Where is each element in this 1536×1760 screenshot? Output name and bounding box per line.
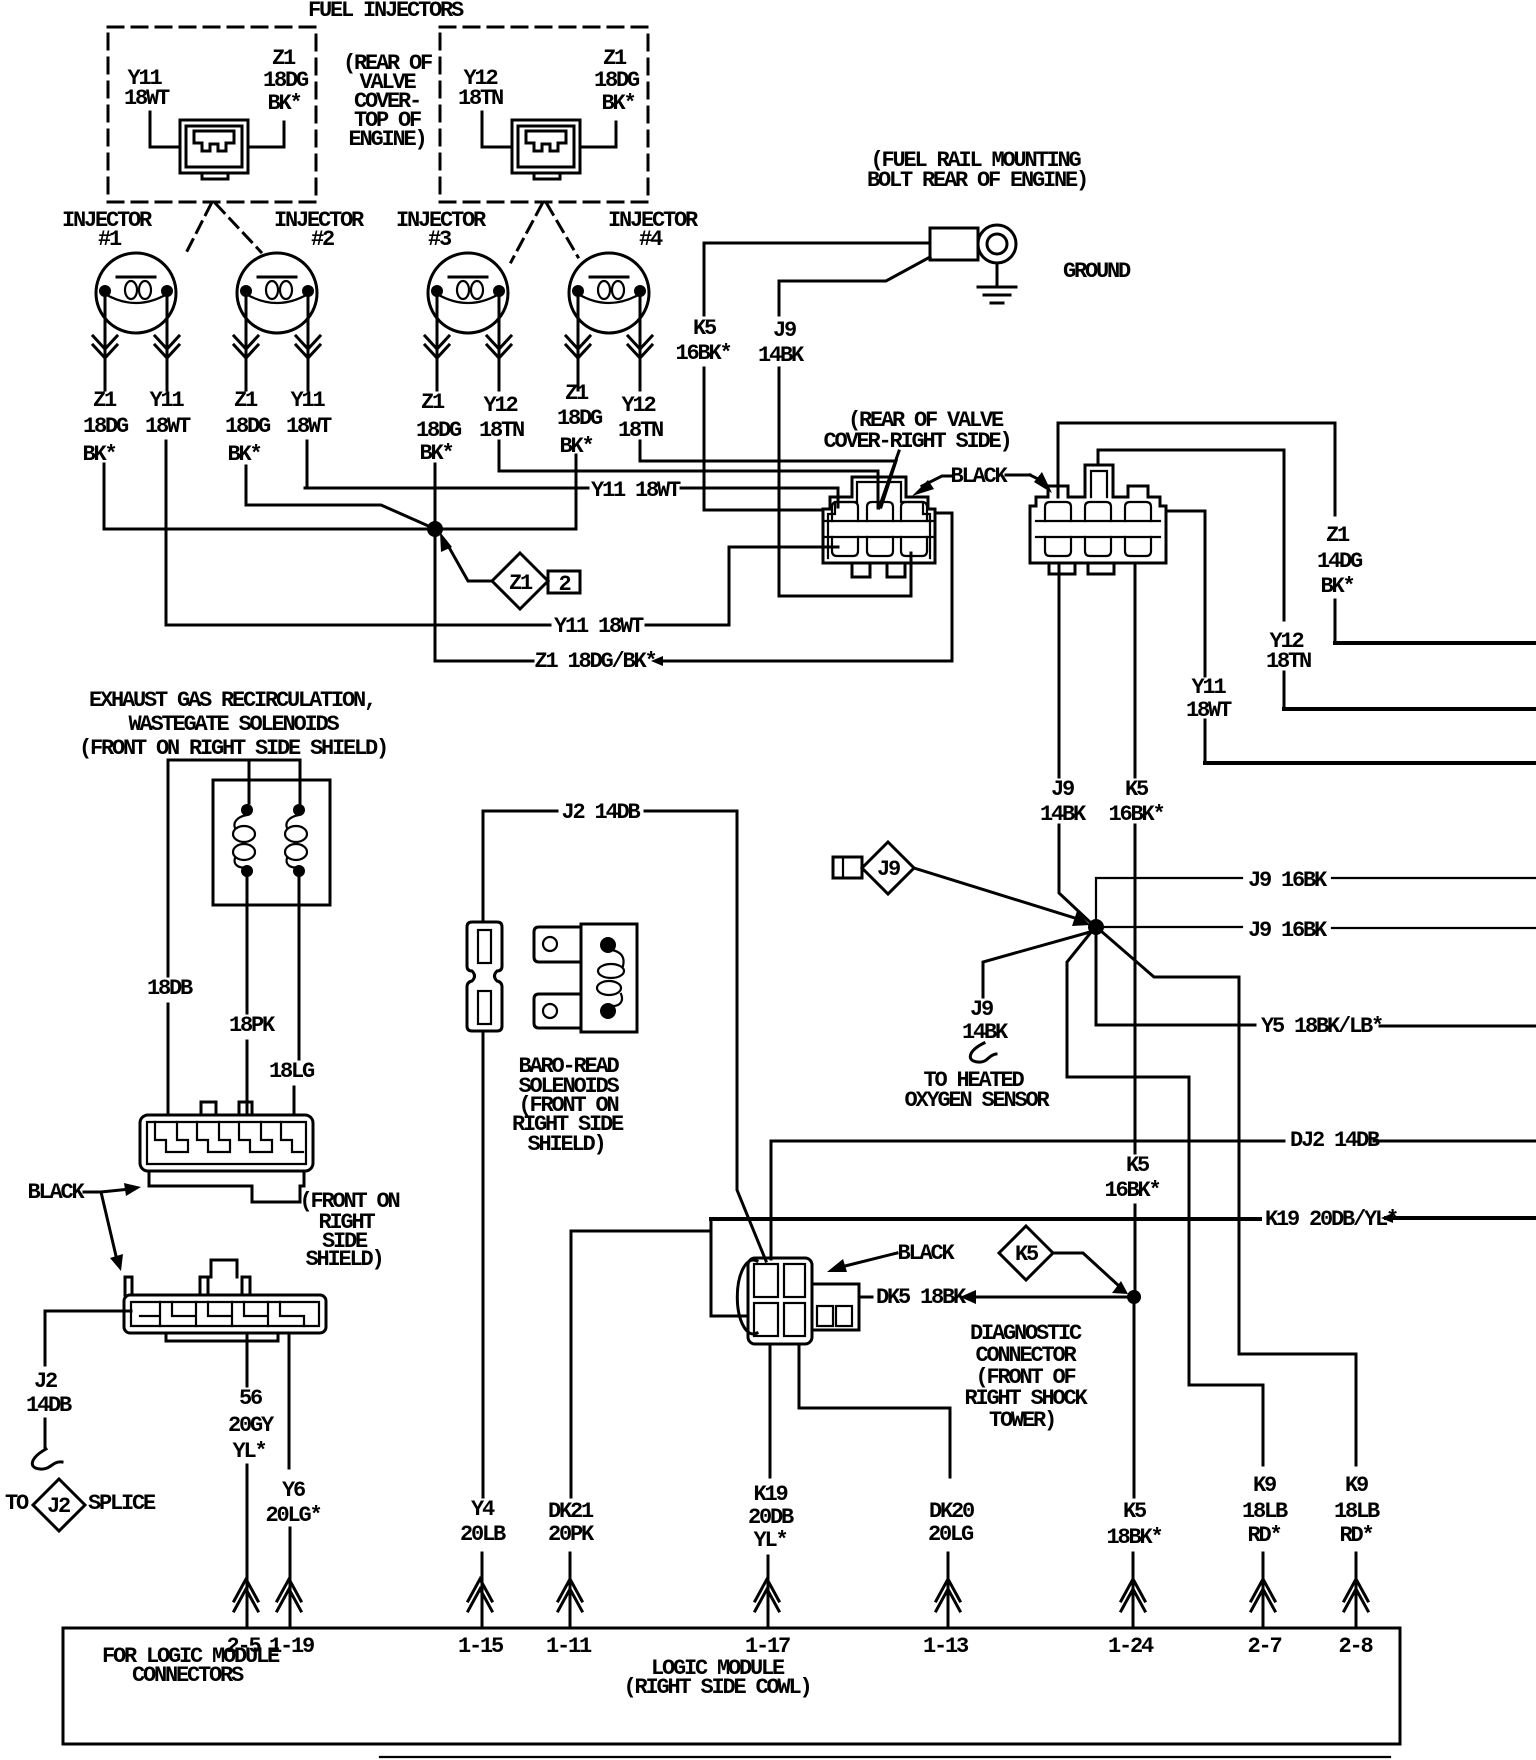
wire J9 14BK from black connector bottom-left pin — [1059, 563, 1092, 924]
wire label Z1 18DG BK* (injector 3) — [416, 390, 462, 466]
wire label J9 14BK (mid) — [1040, 777, 1087, 827]
wire J9 16BK lower run — [1103, 927, 1536, 928]
svg-text:18DG: 18DG — [263, 68, 309, 93]
wire K19 20DB/YL* run — [711, 1218, 1536, 1219]
diagnostic connector (front of right shock tower) — [737, 1258, 859, 1344]
wire K9 branch b: junction diagonal to pin 2-8 — [1101, 931, 1356, 1628]
wire label K5 18BK* (bottom) — [1106, 1499, 1161, 1550]
wire injector #2 right lead — [307, 297, 310, 390]
svg-text:SHIELD): SHIELD) — [527, 1132, 604, 1157]
svg-text:DK20: DK20 — [929, 1499, 974, 1524]
connector 6-pin black (right) — [1030, 465, 1166, 574]
svg-text:18DG: 18DG — [557, 406, 603, 431]
wire label Y12 18TN (injector 4) — [618, 393, 663, 443]
wire Z1 14DG BK* continuation to right edge — [1335, 641, 1536, 645]
svg-text:DK5 18BK: DK5 18BK — [876, 1285, 967, 1310]
wire label DK20 20LG — [928, 1499, 974, 1547]
wire label Y6 20LG* — [265, 1478, 320, 1528]
note BARO-READ SOLENOIDS (FRONT ON RIGHT SIDE SHIELD) — [512, 1054, 624, 1157]
svg-text:SPLICE: SPLICE — [88, 1491, 156, 1516]
wire label Z1 18DG BK* (injector 2) — [225, 388, 271, 467]
wire label Y4 20LB — [460, 1497, 506, 1547]
wire Y11 18WT lower run (injector1 to connector) — [166, 547, 838, 625]
wire Z1 injector3 drop through junction down to Z1 18DG/BK* run — [434, 464, 437, 661]
svg-text:Y11: Y11 — [290, 388, 325, 413]
wire Y11 18WT run (injector2 to connector) — [305, 488, 838, 507]
svg-text:#1: #1 — [98, 227, 122, 252]
svg-text:Y5 18BK/LB*: Y5 18BK/LB* — [1261, 1014, 1382, 1039]
svg-text:DJ2 14DB: DJ2 14DB — [1290, 1128, 1380, 1153]
wire label K9 18LB RD* (pin 2-7) — [1242, 1473, 1288, 1548]
svg-text:K9: K9 — [1253, 1473, 1276, 1498]
svg-text:18DB: 18DB — [147, 976, 193, 1001]
svg-text:TOWER): TOWER) — [989, 1408, 1055, 1433]
svg-text:J2 14DB: J2 14DB — [561, 800, 640, 825]
svg-text:14DG: 14DG — [1317, 549, 1363, 574]
svg-text:1-24: 1-24 — [1108, 1634, 1154, 1659]
wire DJ2 14DB drop into diagnostic connector — [770, 1141, 773, 1259]
svg-text:OXYGEN SENSOR: OXYGEN SENSOR — [904, 1088, 1050, 1113]
wire label K19 20DB YL* — [748, 1482, 794, 1553]
svg-text:Y11 18WT: Y11 18WT — [554, 614, 644, 639]
svg-text:DK21: DK21 — [548, 1499, 594, 1524]
wire Y6 20LG* to pin 1-19 — [289, 1333, 290, 1628]
svg-text:18TN: 18TN — [1266, 649, 1311, 674]
leader line from note into connector — [879, 451, 899, 508]
svg-text:18LG: 18LG — [269, 1059, 315, 1084]
in-line connector (baro-read) — [467, 922, 502, 1031]
svg-text:Z1: Z1 — [509, 571, 533, 596]
wire DK21 20PK run and drop to pin 1-11 — [570, 1231, 711, 1628]
svg-text:K5: K5 — [1125, 777, 1149, 802]
svg-text:J2: J2 — [34, 1369, 57, 1394]
svg-text:18TN: 18TN — [458, 86, 503, 111]
svg-text:18WT: 18WT — [286, 414, 332, 439]
svg-text:18WT: 18WT — [124, 86, 170, 111]
svg-text:K5: K5 — [1015, 1242, 1039, 1267]
injector #3 — [428, 253, 508, 333]
wire label Y12 18TN — [1266, 629, 1311, 674]
wire Z1 to right connector — [580, 122, 616, 147]
svg-text:Y12: Y12 — [483, 393, 517, 418]
svg-text:K5: K5 — [693, 316, 717, 341]
wire label Z1 18DG BK* (injector 4) — [557, 381, 603, 459]
wire 18DB drop — [167, 760, 170, 1115]
svg-text:18BK*: 18BK* — [1106, 1525, 1161, 1550]
wire injector #4 right lead — [639, 297, 642, 390]
svg-text:J2: J2 — [47, 1494, 70, 1519]
wire injector #3 left lead — [436, 297, 439, 390]
svg-text:20LG*: 20LG* — [265, 1503, 320, 1528]
wire Y12 18TN continuation to right edge — [1284, 707, 1536, 711]
svg-text:20LB: 20LB — [460, 1522, 506, 1547]
connector box (rear of valve cover-top of engine) right, dashed — [440, 27, 648, 202]
wire Y12 18TN from black connector top tab — [1098, 450, 1284, 709]
svg-text:BK*: BK* — [601, 91, 634, 116]
wire Y12 injector4 drop, run right, diagonal into connector pin — [640, 441, 896, 507]
svg-text:18DG: 18DG — [225, 414, 271, 439]
wire Y11 injector2 drop — [306, 441, 309, 488]
svg-text:J9 16BK: J9 16BK — [1248, 868, 1328, 893]
wire Y12 to right connector — [482, 112, 512, 147]
wire Z1 14DG BK* from black connector top-left pin — [1058, 423, 1335, 643]
chevron arrows into logic module — [234, 1579, 258, 1611]
wire Y11 injector1 drop — [165, 441, 168, 625]
connector 4-pin lower (front on right side shield) — [124, 1260, 326, 1341]
svg-text:COVER-RIGHT SIDE): COVER-RIGHT SIDE) — [823, 429, 1010, 454]
svg-text:1-13: 1-13 — [923, 1634, 969, 1659]
wire 18DB bus to EGR solenoids — [168, 760, 300, 803]
svg-text:2-8: 2-8 — [1338, 1634, 1373, 1659]
ring terminal (fuel rail mounting bolt) — [930, 225, 1016, 263]
node J9 junction — [1088, 919, 1104, 935]
svg-text:GROUND: GROUND — [1063, 259, 1131, 284]
note (REAR OF VALVE COVER- TOP OF ENGINE) — [343, 51, 432, 152]
wire J2 14DB run — [483, 811, 766, 1261]
wire label 56 20GY YL* — [228, 1386, 275, 1464]
wire label K5 16BK* (upper) — [675, 316, 730, 366]
wire label Z1 14DG BK* — [1317, 523, 1363, 599]
svg-text:(FRONT ON RIGHT SIDE SHIELD): (FRONT ON RIGHT SIDE SHIELD) — [79, 736, 387, 761]
node K5 junction — [1127, 1290, 1141, 1304]
dashed leader legs box1 to injectors 1,2 — [184, 204, 211, 257]
wire Y4 20LB drop to pin 1-15 — [482, 1031, 483, 1628]
splice symbol J2 (diamond) with TO ... SPLICE — [5, 1479, 156, 1531]
wire Z1 injector1 drop to Z1 bus — [103, 464, 106, 529]
baro-read solenoid symbol — [534, 924, 637, 1032]
wire DJ2 14DB run — [771, 1140, 1536, 1143]
svg-text:J9: J9 — [773, 318, 796, 343]
wire 56 20GY YL* to pin 2-5 — [246, 1333, 249, 1628]
svg-text:J9: J9 — [970, 997, 993, 1022]
leader arrow from Z1 splice to junction — [446, 542, 492, 581]
svg-text:Y11 18WT: Y11 18WT — [591, 478, 681, 503]
logic module box — [63, 1628, 1400, 1744]
svg-text:18PK: 18PK — [229, 1013, 276, 1038]
svg-text:J9: J9 — [877, 857, 900, 882]
wire label K5 16BK* (mid) — [1108, 777, 1163, 827]
leader arrow from K5 splice to junction on K5 wire — [1053, 1253, 1119, 1286]
svg-text:20LG: 20LG — [928, 1522, 974, 1547]
chevron connector-arrows on injector #1 leads — [93, 336, 117, 358]
svg-text:BLACK: BLACK — [27, 1180, 85, 1205]
splice symbol K5 (diamond) — [999, 1226, 1053, 1280]
wire label Z1 18DG BK* (injector 1) — [82, 388, 129, 467]
wire injector #1 right lead — [166, 297, 169, 390]
wire label J2 14DB — [26, 1369, 72, 1418]
wire Y5 18BK/LB* from junction — [1096, 927, 1536, 1026]
svg-text:Z1 18DG/BK*: Z1 18DG/BK* — [534, 649, 655, 674]
wire partial bottom edge line — [380, 1756, 1390, 1758]
wire label K5 16BK* (lower mid) — [1104, 1153, 1159, 1203]
dashed leader legs box2 to injectors 3,4 — [511, 204, 542, 262]
svg-text:20DB: 20DB — [748, 1505, 794, 1530]
wire Z1 injector2 drop, jog and diagonal to splice junction — [246, 466, 433, 528]
svg-text:14DB: 14DB — [26, 1393, 72, 1418]
wire 18LG drop — [294, 877, 299, 1115]
wire J2 14DB into lower connector — [45, 1311, 131, 1447]
svg-text:J9 16BK: J9 16BK — [1248, 918, 1328, 943]
wire Z1 to left connector — [248, 122, 284, 147]
wire label Y11 18WT — [1186, 675, 1232, 723]
svg-text:J9: J9 — [1051, 777, 1074, 802]
svg-text:Y11: Y11 — [1191, 675, 1226, 700]
note DIAGNOSTIC CONNECTOR (FRONT OF RIGHT SHOCK TOWER) — [964, 1321, 1088, 1433]
wire label Y11 18WT (injector 1) — [145, 388, 191, 439]
svg-text:18WT: 18WT — [1186, 698, 1232, 723]
svg-text:18TN: 18TN — [618, 418, 663, 443]
svg-text:BOLT REAR OF ENGINE): BOLT REAR OF ENGINE) — [867, 168, 1087, 193]
svg-text:K5: K5 — [1123, 1499, 1147, 1524]
wire Z1 bus — [104, 528, 576, 531]
svg-text:Z1: Z1 — [421, 390, 445, 415]
wire 18PK drop — [246, 877, 249, 1115]
wire label K9 18LB RD* (pin 2-8) — [1334, 1473, 1380, 1548]
svg-text:BLACK: BLACK — [897, 1241, 955, 1266]
svg-text:Y12: Y12 — [621, 393, 655, 418]
ground symbol — [978, 263, 1016, 303]
connector box (rear of valve cover-top of engine) left, dashed — [108, 27, 316, 202]
svg-text:18DG: 18DG — [594, 68, 640, 93]
node Z1 splice junction — [427, 521, 443, 537]
wire K19 20DB/YL* from diagnostic connector (left loop) — [711, 1219, 748, 1316]
svg-text:K5: K5 — [1126, 1153, 1150, 1178]
svg-text:56: 56 — [239, 1386, 262, 1411]
svg-text:SHIELD): SHIELD) — [305, 1247, 382, 1272]
svg-text:20GY: 20GY — [228, 1413, 275, 1438]
note (FRONT ON RIGHT SIDE SHIELD) — [299, 1189, 399, 1272]
wire injector #3 right lead — [498, 297, 501, 390]
wire Y11 18WT continuation to right edge — [1205, 761, 1536, 765]
svg-text:CONNECTORS: CONNECTORS — [132, 1663, 244, 1688]
svg-text:BK*: BK* — [1320, 574, 1353, 599]
svg-text:2: 2 — [558, 572, 570, 597]
svg-text:#4: #4 — [639, 227, 663, 252]
svg-text:16BK*: 16BK* — [675, 341, 730, 366]
injector #1 — [96, 253, 176, 333]
svg-text:K9: K9 — [1345, 1473, 1368, 1498]
svg-text:20PK: 20PK — [548, 1522, 595, 1547]
wire J2 14DB drop to in-line connector — [482, 811, 485, 922]
wire injector #2 left lead — [245, 297, 248, 390]
wire J9 14BK to heated oxygen sensor — [983, 932, 1090, 997]
svg-text:18LB: 18LB — [1334, 1499, 1380, 1524]
splice symbol J9 (diamond with cavity box) — [833, 842, 914, 894]
svg-text:16BK*: 16BK* — [1104, 1178, 1159, 1203]
leader arrow from J9 splice to junction — [914, 868, 1078, 919]
wire injector #1 left lead — [104, 297, 107, 390]
svg-text:Z1: Z1 — [1326, 523, 1350, 548]
svg-text:Z1: Z1 — [234, 388, 258, 413]
wire K5 16BK* to ring terminal — [704, 243, 930, 510]
svg-text:1-15: 1-15 — [458, 1634, 504, 1659]
svg-text:#3: #3 — [428, 227, 452, 252]
svg-text:BK*: BK* — [82, 442, 115, 467]
svg-text:BK*: BK* — [419, 441, 452, 466]
svg-text:Y4: Y4 — [471, 1497, 495, 1522]
connector 6-pin (rear of valve cover-right side) — [823, 477, 935, 577]
svg-text:#2: #2 — [311, 227, 334, 252]
svg-text:BLACK: BLACK — [950, 464, 1008, 489]
wire label DK21 20PK — [548, 1499, 595, 1547]
svg-text:YL*: YL* — [753, 1528, 786, 1553]
wire Y11 18WT from black connector right-middle pin — [1166, 511, 1205, 763]
injector #2 — [237, 253, 317, 333]
connector 4-pin upper (front on right side shield) — [140, 1102, 313, 1202]
wire K5 16BK* from black connector bottom-middle pin — [1134, 563, 1137, 1290]
svg-text:(RIGHT SIDE COWL): (RIGHT SIDE COWL) — [623, 1675, 810, 1700]
splice symbol Z1 (diamond with cavity 2) — [492, 553, 580, 609]
EGR/wastegate solenoids box — [213, 780, 330, 905]
wire injector #4 left lead — [577, 297, 580, 390]
wire K9 branch a: junction to pin 2-7 — [1067, 931, 1263, 1628]
svg-text:18TN: 18TN — [479, 418, 524, 443]
wire J9 14BK to ring terminal (diagonal) — [779, 257, 930, 596]
injector #4 — [569, 253, 649, 333]
chevron connector-arrows on injector #4 leads — [566, 336, 590, 358]
wire label Y12 18TN (injector 3) — [479, 393, 524, 443]
wire K5 18BK* to pin 1-24 — [1133, 1304, 1134, 1628]
svg-text:18DG: 18DG — [416, 418, 462, 443]
svg-text:Y11: Y11 — [149, 388, 184, 413]
wire J9 16BK upper run — [1096, 878, 1536, 927]
wire DK20 20LG to pin 1-13 — [799, 1344, 950, 1628]
svg-text:1-11: 1-11 — [546, 1634, 592, 1659]
wire Y11 to left connector — [150, 112, 180, 147]
continuation squiggle to J2 splice — [32, 1449, 62, 1469]
wire DK5 18BK with arrow — [861, 1296, 1128, 1299]
svg-text:18LB: 18LB — [1242, 1499, 1288, 1524]
svg-text:Z1: Z1 — [93, 388, 117, 413]
wire Z1 18DG/BK* run (junction to connector right side) — [435, 513, 952, 661]
svg-text:EXHAUST GAS RECIRCULATION,: EXHAUST GAS RECIRCULATION, — [89, 688, 375, 713]
svg-text:WASTEGATE SOLENOIDS: WASTEGATE SOLENOIDS — [128, 712, 339, 737]
svg-text:16BK*: 16BK* — [1108, 802, 1163, 827]
svg-text:RD*: RD* — [1339, 1523, 1372, 1548]
wire label Y11 18WT (injector 2) — [286, 388, 332, 439]
svg-text:ENGINE): ENGINE) — [348, 127, 425, 152]
wire K19 20DB YL* to pin 1-17 — [768, 1344, 770, 1628]
svg-text:FUEL INJECTORS: FUEL INJECTORS — [308, 0, 464, 23]
wire label J9 14BK (upper) — [758, 318, 805, 368]
chevron connector-arrows on injector #2 leads — [234, 336, 258, 358]
continuation squiggle to heated oxygen sensor — [970, 1043, 996, 1062]
svg-text:2-7: 2-7 — [1247, 1634, 1281, 1659]
svg-text:Y6: Y6 — [282, 1478, 305, 1503]
chevron connector-arrows on injector #3 leads — [425, 336, 449, 358]
wire Z1 injector4 drop — [575, 455, 578, 529]
svg-text:YL*: YL* — [232, 1439, 265, 1464]
svg-text:BK*: BK* — [267, 91, 300, 116]
svg-text:18WT: 18WT — [145, 414, 191, 439]
svg-text:RD*: RD* — [1247, 1523, 1280, 1548]
svg-text:18DG: 18DG — [83, 414, 129, 439]
wire Y12 injector3 drop and run right into connector — [499, 441, 878, 508]
svg-text:14BK: 14BK — [758, 343, 805, 368]
svg-text:K19: K19 — [753, 1482, 787, 1507]
wire label J9 14BK (oxygen sensor) — [962, 997, 1009, 1045]
label BLACK with arrow to black connector — [1006, 474, 1030, 477]
svg-text:Z1: Z1 — [565, 381, 589, 406]
svg-text:TO: TO — [5, 1491, 29, 1516]
svg-text:BK*: BK* — [227, 442, 260, 467]
svg-text:K19 20DB/YL*: K19 20DB/YL* — [1265, 1207, 1397, 1232]
svg-text:14BK: 14BK — [1040, 802, 1087, 827]
svg-text:14BK: 14BK — [962, 1020, 1009, 1045]
